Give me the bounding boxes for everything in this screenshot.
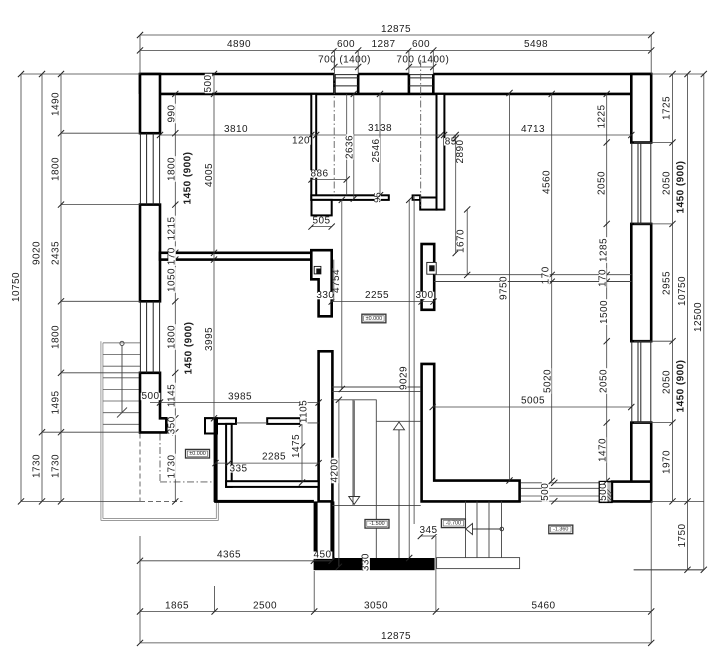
right dim texts sub	[663, 95, 670, 121]
svg-text:9029: 9029	[398, 366, 409, 390]
dim 345	[421, 535, 435, 537]
top extension lines	[139, 35, 141, 74]
bathroom bottom wall	[226, 481, 319, 487]
divider wall bedroom-room2	[160, 253, 311, 260]
bottom extension lines	[139, 536, 141, 643]
dim 500 top wall	[213, 74, 215, 94]
stair bottom landing line	[332, 504, 420, 506]
svg-text:990: 990	[167, 104, 178, 122]
right wall middle chunk	[631, 224, 651, 341]
tambour door jamb piece	[413, 195, 421, 200]
tambour right chunk	[420, 198, 436, 210]
terrace stair direction line	[120, 341, 124, 345]
svg-text:345: 345	[419, 525, 437, 536]
svg-text:-0.700: -0.700	[446, 521, 461, 527]
bottom dim texts sub	[164, 602, 190, 609]
porch band label 330	[363, 552, 370, 572]
svg-text:500: 500	[203, 74, 214, 92]
svg-text:1105: 1105	[298, 400, 309, 423]
bottom-left wall band	[214, 500, 314, 503]
door jamb wall left	[205, 418, 217, 433]
dim 2890/85 line	[455, 135, 457, 253]
top dim text 12875	[380, 26, 412, 33]
tambour left wall	[311, 94, 316, 200]
porch bottom wall band	[314, 558, 435, 570]
dim 330 text	[316, 292, 336, 299]
svg-text:1450 (900): 1450 (900)	[676, 161, 687, 214]
svg-text:5460: 5460	[531, 601, 555, 612]
right dim text 12500	[695, 301, 702, 333]
svg-text:4560: 4560	[542, 170, 553, 194]
svg-text:1050: 1050	[167, 268, 178, 292]
svg-text:505: 505	[312, 215, 330, 226]
dim 886	[312, 179, 347, 181]
bottom column hatched	[599, 482, 612, 503]
dim 9750	[509, 93, 511, 481]
bathroom top wall piece B	[267, 418, 300, 424]
tambour right wall	[437, 94, 445, 210]
tambour bottom wall stub 505	[312, 200, 332, 216]
left wall label 500	[141, 393, 161, 400]
svg-text:1490: 1490	[51, 92, 62, 116]
svg-text:1475: 1475	[291, 434, 302, 458]
right wall upper chunk	[631, 74, 651, 143]
svg-text:12875: 12875	[381, 631, 411, 642]
left dim line 9020	[41, 74, 43, 501]
svg-text:2285: 2285	[262, 451, 286, 462]
svg-text:4890: 4890	[227, 39, 251, 50]
bottom door opening lines	[521, 482, 599, 484]
svg-text:1725: 1725	[662, 96, 673, 120]
top dim line sub	[140, 49, 651, 51]
svg-text:1450 (900): 1450 (900)	[676, 360, 687, 413]
axis window1	[333, 60, 335, 195]
dim 2546	[379, 94, 381, 195]
left dim texts 9020/1730	[33, 240, 40, 266]
svg-text:1450 (900): 1450 (900)	[183, 322, 194, 375]
level box -1.500	[365, 520, 389, 529]
svg-text:700 (1400): 700 (1400)	[318, 55, 371, 66]
svg-text:120: 120	[292, 136, 310, 147]
dim 3985	[150, 402, 319, 404]
left wall middle chunk	[140, 205, 160, 302]
level box -0.700	[441, 519, 465, 528]
porch stair side wall	[330, 501, 334, 558]
bottom dim texts 4365/450	[216, 552, 242, 559]
axis window2	[420, 60, 422, 208]
right dim line sub	[672, 74, 674, 501]
svg-text:1800: 1800	[167, 325, 178, 349]
level box 0.000 hall	[362, 314, 386, 323]
svg-text:330: 330	[361, 553, 372, 571]
interior chain texts x175	[168, 104, 175, 124]
svg-text:1730: 1730	[32, 454, 43, 478]
stair up arrow	[398, 430, 400, 558]
svg-text:4713: 4713	[521, 124, 545, 135]
bathroom left wall	[226, 424, 232, 487]
left flue symbol	[314, 266, 321, 274]
top dim texts sub	[226, 41, 252, 48]
svg-text:2636: 2636	[345, 135, 356, 159]
terrace outline right edge	[217, 503, 219, 521]
svg-text:1285: 1285	[598, 238, 609, 262]
svg-text:600: 600	[337, 39, 355, 50]
svg-text:2255: 2255	[365, 290, 389, 301]
shaft wall vertical	[214, 418, 217, 501]
stair flight line B	[375, 400, 377, 558]
dim 4200	[338, 400, 340, 567]
right dim texts 10750/1750	[679, 275, 686, 307]
svg-text:1730: 1730	[51, 454, 62, 478]
svg-text:1800: 1800	[51, 325, 62, 349]
svg-text:450: 450	[313, 550, 331, 561]
left wall upper chunk	[140, 74, 160, 133]
svg-text:2890: 2890	[455, 139, 466, 163]
top dim line 12875	[140, 34, 651, 36]
bottom dim line 12875	[140, 642, 651, 644]
svg-text:170: 170	[167, 247, 178, 265]
terrace outline left edge	[100, 341, 102, 520]
dim 1670	[466, 209, 468, 275]
ext line x333	[333, 260, 335, 302]
stair flight line A	[352, 400, 354, 506]
dim 505	[312, 226, 332, 228]
svg-text:10750: 10750	[11, 272, 22, 302]
svg-text:1287: 1287	[371, 39, 395, 50]
svg-text:4200: 4200	[330, 458, 341, 482]
tambour bottom wall	[311, 195, 389, 200]
svg-text:9750: 9750	[499, 276, 510, 300]
svg-text:300: 300	[415, 290, 433, 301]
interior chain texts x606	[598, 104, 605, 130]
porch arrow	[473, 528, 502, 530]
svg-text:3985: 3985	[228, 391, 252, 402]
svg-text:9020: 9020	[32, 241, 43, 265]
dim 95 label	[374, 191, 381, 204]
dim 2255/300	[332, 301, 434, 303]
svg-text:2050: 2050	[662, 370, 673, 394]
svg-text:1750: 1750	[677, 523, 688, 547]
svg-text:1800: 1800	[51, 157, 62, 181]
dim 1105/1475 line	[301, 403, 303, 483]
dim 2636	[353, 94, 355, 199]
svg-text:1215: 1215	[167, 216, 178, 240]
interior dim line x214	[213, 94, 215, 418]
svg-text:500: 500	[540, 483, 551, 501]
svg-text:5498: 5498	[524, 39, 548, 50]
porch left wall	[314, 501, 318, 558]
interior chain line x551	[551, 94, 553, 481]
interior dim texts x214	[206, 162, 213, 188]
svg-text:2050: 2050	[662, 171, 673, 195]
porch landing	[437, 558, 520, 569]
dim 2285/335	[216, 462, 319, 464]
ext line x414	[413, 195, 415, 524]
bottom opening label 500	[551, 480, 557, 486]
left window 1 glazing	[139, 133, 141, 204]
svg-text:1470: 1470	[597, 438, 608, 462]
interior chain line x175	[174, 94, 176, 502]
svg-text:4005: 4005	[204, 163, 215, 187]
stair right flight top edge	[377, 420, 421, 422]
svg-text:2435: 2435	[51, 241, 62, 265]
interior dim texts y135	[223, 126, 249, 133]
stair partition lines	[332, 386, 420, 388]
svg-text:2050: 2050	[599, 369, 610, 393]
overhang dash-dot outline	[159, 434, 161, 482]
svg-text:170: 170	[597, 269, 608, 287]
right dim line 12500	[703, 74, 705, 570]
porch steps	[465, 501, 467, 557]
svg-text:12875: 12875	[381, 24, 411, 35]
right window 2 glazing	[631, 341, 633, 422]
top window1 jambs	[333, 74, 336, 94]
top wall left end cap	[139, 73, 142, 94]
svg-text:10750: 10750	[677, 276, 688, 306]
left dim line 10750	[20, 74, 22, 501]
bathroom threshold lines	[236, 422, 267, 424]
right extension lines	[651, 73, 704, 75]
top wall inner edge	[160, 93, 631, 96]
right flue symbol	[427, 262, 436, 274]
top wall right end cap	[650, 73, 653, 143]
svg-text:350: 350	[167, 416, 178, 434]
interior chain line x606	[606, 94, 608, 481]
terrace stair treads	[103, 342, 140, 344]
svg-text:5005: 5005	[521, 396, 545, 407]
svg-text:±0.000: ±0.000	[366, 316, 382, 322]
svg-text:3050: 3050	[364, 601, 388, 612]
svg-text:335: 335	[229, 463, 247, 474]
top window2 glazing	[409, 74, 433, 76]
svg-text:170: 170	[541, 266, 552, 284]
svg-text:2050: 2050	[597, 171, 608, 195]
top dim window lines	[334, 66, 358, 68]
svg-text:1500: 1500	[599, 300, 610, 324]
svg-text:12500: 12500	[693, 302, 704, 332]
left window 2 glazing	[139, 301, 141, 373]
bottom column label 500	[600, 482, 607, 502]
svg-text:1670: 1670	[456, 229, 467, 253]
bottom dim line 4365/450	[140, 560, 332, 562]
svg-text:600: 600	[412, 39, 430, 50]
svg-text:500: 500	[598, 483, 609, 501]
svg-text:2955: 2955	[662, 271, 673, 295]
svg-text:-1.360: -1.360	[553, 527, 568, 533]
right dim line 10750	[687, 74, 689, 570]
left extension lines	[21, 73, 140, 75]
svg-text:1865: 1865	[165, 601, 189, 612]
svg-text:1800: 1800	[167, 157, 178, 181]
top window2 jambs	[408, 74, 411, 94]
svg-text:500: 500	[141, 391, 159, 402]
right dim texts 1450(900)	[677, 156, 684, 218]
svg-text:5020: 5020	[542, 369, 553, 393]
left dim text 10750	[13, 271, 20, 303]
right flue column	[422, 244, 435, 310]
svg-text:3810: 3810	[224, 124, 248, 135]
stairwell right wall and living bottom wall	[422, 364, 520, 502]
svg-text:1145: 1145	[167, 384, 178, 407]
svg-text:2500: 2500	[253, 601, 277, 612]
living partition lines	[434, 274, 631, 276]
interior dim line y135	[160, 134, 631, 136]
bathroom top wall piece A	[205, 418, 236, 424]
svg-text:3995: 3995	[204, 327, 215, 351]
left flue column	[311, 250, 331, 316]
level box 0.000 corridor	[186, 449, 210, 458]
dim 4754	[341, 200, 343, 389]
svg-text:-1.500: -1.500	[369, 521, 384, 527]
terrace outline bottom edge	[101, 520, 218, 522]
svg-text:4754: 4754	[331, 269, 342, 293]
svg-text:886: 886	[310, 169, 328, 180]
left window texts 1450(900)	[184, 147, 191, 209]
bottom-right corner wall	[612, 482, 651, 502]
ground line right	[634, 569, 704, 571]
stair landing edge	[332, 399, 376, 401]
svg-text:700 (1400): 700 (1400)	[396, 55, 449, 66]
svg-text:1225: 1225	[597, 104, 608, 128]
stairwell left wall	[319, 351, 333, 501]
dim 9029	[408, 200, 410, 558]
right wall lower chunk	[631, 423, 651, 502]
svg-text:±0.000: ±0.000	[189, 451, 205, 457]
overhang dashed outline	[139, 434, 141, 502]
bottom dim text 12875	[380, 633, 412, 640]
stair down arrow	[353, 401, 355, 497]
left wall lower chunk	[140, 373, 166, 433]
top wall outer edge	[140, 73, 334, 76]
svg-text:2546: 2546	[371, 138, 382, 162]
svg-text:4365: 4365	[217, 550, 241, 561]
level box -1.360	[549, 525, 573, 534]
bottom dim line sub	[140, 611, 651, 613]
top window1 glazing	[334, 74, 358, 76]
right window 1 glazing	[631, 143, 633, 224]
svg-text:1730: 1730	[167, 454, 178, 478]
left dim texts sub	[52, 91, 59, 117]
svg-text:1450 (900): 1450 (900)	[182, 152, 193, 205]
interior chain texts x551	[543, 169, 550, 195]
left dim line sub	[60, 74, 62, 501]
svg-text:1495: 1495	[51, 390, 62, 414]
dim 5005	[433, 406, 632, 408]
svg-text:1970: 1970	[662, 450, 673, 474]
